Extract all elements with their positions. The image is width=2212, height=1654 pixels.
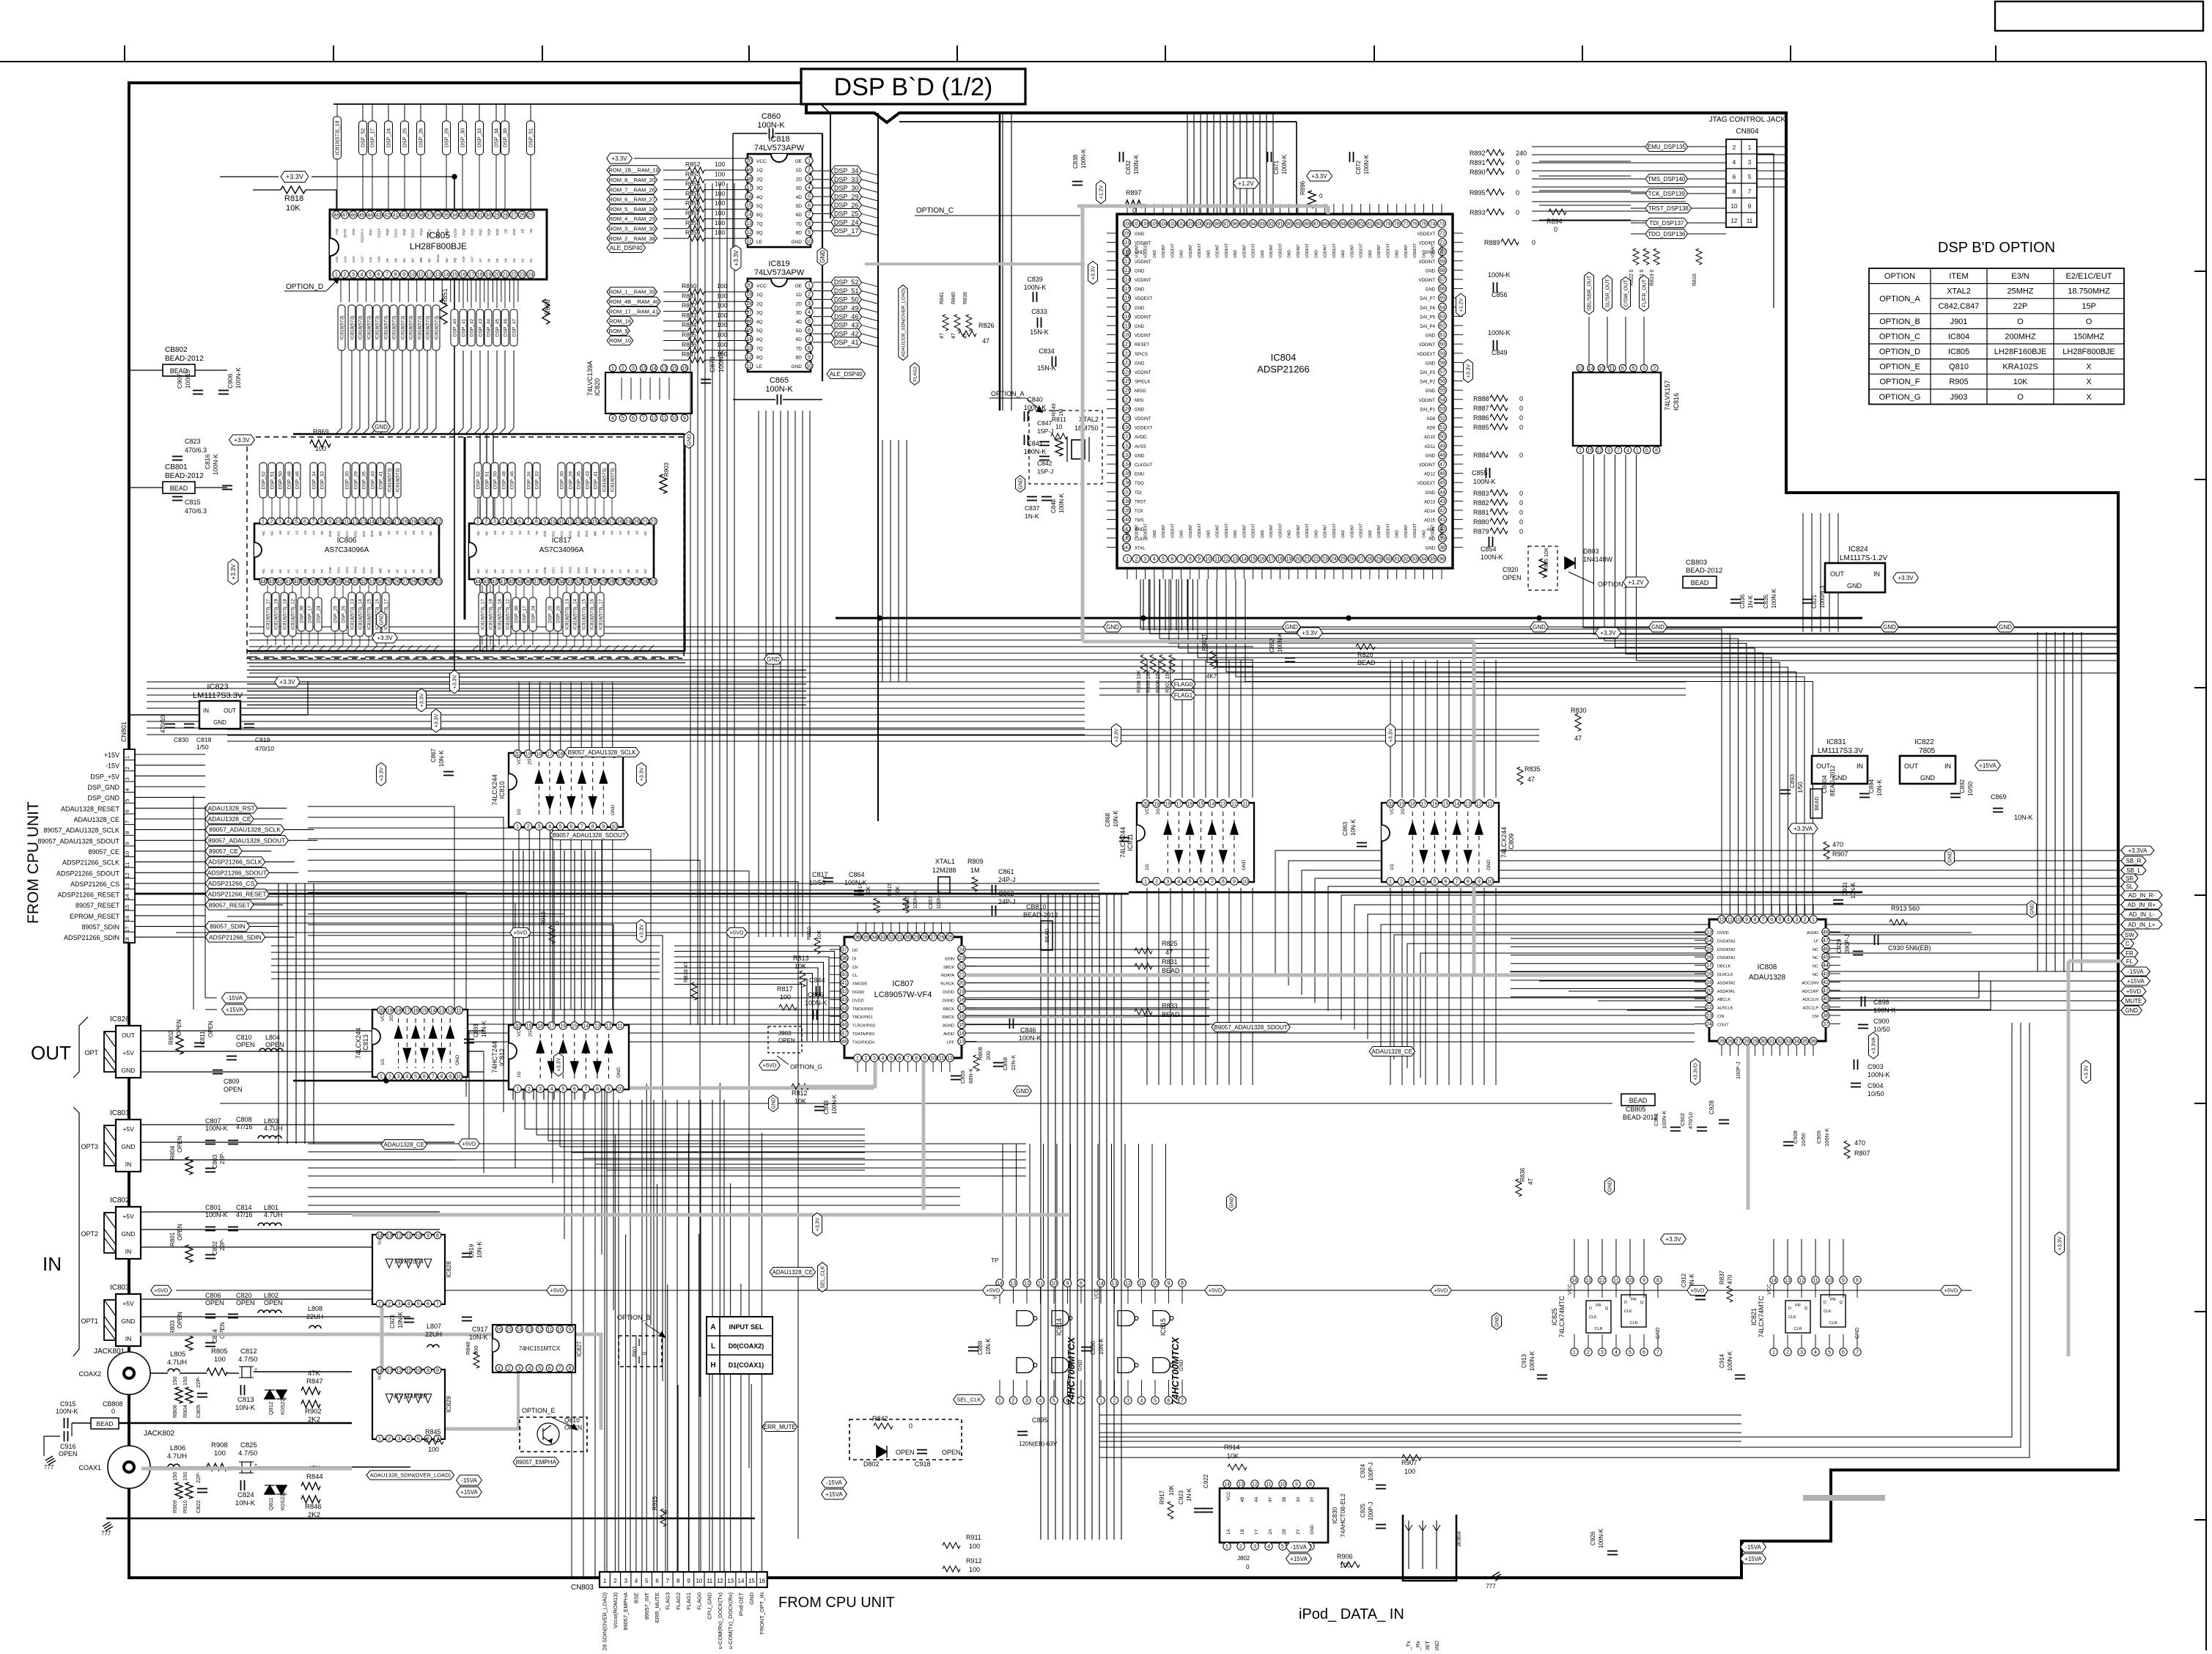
svg-text:3: 3 xyxy=(1025,1399,1028,1404)
svg-text:1: 1 xyxy=(498,1367,501,1372)
svg-text:OPEN: OPEN xyxy=(177,1136,183,1153)
svg-text:GND: GND xyxy=(1126,250,1130,259)
R902T 4K7 xyxy=(1210,651,1216,669)
svg-text:GND: GND xyxy=(1230,1197,1235,1208)
svg-text:37: 37 xyxy=(841,948,847,953)
svg-text:100N-K: 100N-K xyxy=(844,879,867,886)
svg-text:3B: 3B xyxy=(1283,1497,1287,1502)
svg-text:100N-K: 100N-K xyxy=(1481,554,1503,561)
svg-text:DSP_41: DSP_41 xyxy=(834,339,859,346)
svg-text:14: 14 xyxy=(443,273,449,278)
svg-text:36: 36 xyxy=(542,580,548,585)
svg-text:O: O xyxy=(2017,317,2024,326)
svg-text:20: 20 xyxy=(494,273,500,278)
svg-text:GND: GND xyxy=(1135,288,1145,293)
svg-text:29: 29 xyxy=(1376,557,1382,562)
svg-text:74LCX244: 74LCX244 xyxy=(491,774,498,806)
svg-text:DSP_24: DSP_24 xyxy=(316,606,321,623)
svg-text:R901 10K: R901 10K xyxy=(1165,670,1170,693)
svg-text:10N-K: 10N-K xyxy=(1876,779,1883,796)
svg-text:R868: R868 xyxy=(544,299,551,315)
svg-text:100N-K: 100N-K xyxy=(1873,1007,1896,1014)
svg-text:44: 44 xyxy=(475,580,481,585)
Q812 diodes xyxy=(265,1390,275,1399)
svg-text:135: 135 xyxy=(1122,471,1131,477)
svg-text:VDDEXT: VDDEXT xyxy=(1225,243,1229,258)
svg-text:A1: A1 xyxy=(287,569,290,573)
svg-text:IC818(573): IC818(573) xyxy=(602,468,607,493)
svg-text:100: 100 xyxy=(715,190,725,197)
svg-text:5: 5 xyxy=(414,1075,417,1080)
svg-text:19: 19 xyxy=(486,273,492,278)
svg-text:L805: L805 xyxy=(170,1350,185,1359)
svg-text:2: 2 xyxy=(528,1087,531,1092)
hex ALE_DSP40 lower xyxy=(827,370,866,379)
svg-text:5Q: 5Q xyxy=(756,328,763,334)
svg-text:86: 86 xyxy=(1322,222,1328,227)
hex label columns below IC806/IC817 xyxy=(264,592,271,636)
svg-text:47: 47 xyxy=(1527,776,1535,783)
svg-text:A8: A8 xyxy=(394,258,398,262)
svg-text:C845: C845 xyxy=(904,896,910,909)
svg-text:6: 6 xyxy=(1645,449,1648,454)
svg-text:+3.3V: +3.3V xyxy=(1302,630,1318,636)
svg-text:C917: C917 xyxy=(472,1326,488,1333)
svg-text:CLR: CLR xyxy=(1829,1321,1837,1326)
svg-text:16: 16 xyxy=(413,1009,419,1014)
svg-text:A6: A6 xyxy=(395,531,399,535)
svg-text:XMODE: XMODE xyxy=(852,982,868,987)
svg-text:0: 0 xyxy=(1516,169,1519,176)
svg-text:H: H xyxy=(710,1361,715,1370)
svg-text:PR: PR xyxy=(1795,1304,1801,1308)
svg-text:FR: FR xyxy=(2126,950,2134,957)
svg-text:13: 13 xyxy=(1220,802,1226,807)
svg-text:24: 24 xyxy=(959,948,965,953)
svg-text:1G: 1G xyxy=(1145,864,1150,870)
svg-text:DSP_42: DSP_42 xyxy=(469,319,474,337)
svg-text:3: 3 xyxy=(397,1437,400,1442)
svg-text:SEL_CLK: SEL_CLK xyxy=(957,1397,981,1403)
svg-text:BEAD: BEAD xyxy=(1815,796,1820,810)
svg-text:9: 9 xyxy=(1295,1482,1298,1488)
svg-text:ROM_9: ROM_9 xyxy=(609,328,628,334)
svg-text:1: 1 xyxy=(516,1087,519,1092)
svg-text:MISI: MISI xyxy=(1135,399,1144,403)
svg-text:R888: R888 xyxy=(1473,395,1489,403)
svg-text:24: 24 xyxy=(427,580,433,585)
svg-text:1: 1 xyxy=(1126,557,1129,562)
svg-text:FLAG2: FLAG2 xyxy=(913,366,918,381)
svg-text:5D: 5D xyxy=(796,204,803,209)
IC813 74LCX244 buffer xyxy=(372,1010,468,1077)
svg-text:R890: R890 xyxy=(1470,169,1486,176)
svg-text:12: 12 xyxy=(447,1009,453,1014)
svg-text:7: 7 xyxy=(1656,1350,1659,1356)
svg-text:8: 8 xyxy=(915,1056,918,1062)
svg-text:GND: GND xyxy=(1180,250,1184,259)
ground jack802 xyxy=(103,1522,110,1526)
svg-text:12: 12 xyxy=(124,872,130,878)
svg-text:A0: A0 xyxy=(493,569,497,573)
svg-text:DSP_47: DSP_47 xyxy=(512,319,517,337)
svg-text:IC819(573)_18: IC819(573)_18 xyxy=(336,121,341,155)
svg-text:38: 38 xyxy=(526,580,531,585)
svg-text:11: 11 xyxy=(124,862,130,868)
svg-text:6D: 6D xyxy=(796,213,803,218)
svg-text:10: 10 xyxy=(1731,203,1738,210)
svg-text:IC812: IC812 xyxy=(498,1048,506,1066)
svg-text:C901: C901 xyxy=(1653,1113,1659,1126)
svg-text:GND: GND xyxy=(1495,1315,1500,1327)
svg-text:C839: C839 xyxy=(1027,276,1043,283)
-15VA +15VA right mid xyxy=(1741,1542,1766,1552)
R826 47 xyxy=(959,331,976,337)
svg-text:VDDINT: VDDINT xyxy=(1135,334,1151,339)
svg-text:81: 81 xyxy=(1367,222,1373,227)
svg-text:A7: A7 xyxy=(404,569,408,573)
svg-text:4: 4 xyxy=(1814,1350,1817,1356)
R837 470 xyxy=(1727,1286,1733,1302)
svg-text:DSP_24: DSP_24 xyxy=(387,128,392,147)
svg-text:12: 12 xyxy=(1596,449,1602,454)
svg-text:43: 43 xyxy=(1439,499,1445,504)
svg-text:470/6.3: 470/6.3 xyxy=(185,507,207,515)
svg-text:11: 11 xyxy=(1242,802,1247,807)
svg-text:VSS: VSS xyxy=(352,229,355,235)
svg-text:XTAL: XTAL xyxy=(1135,546,1146,551)
svg-text:65: 65 xyxy=(1439,296,1445,301)
center mesh horizontals xyxy=(227,883,1099,884)
svg-text:5: 5 xyxy=(417,1302,420,1307)
svg-text:10K: 10K xyxy=(865,886,871,896)
svg-text:SW: SW xyxy=(2125,932,2134,938)
svg-text:10K: 10K xyxy=(1168,1485,1175,1496)
svg-text:R849: R849 xyxy=(1050,403,1057,416)
wire trunk y1474 xyxy=(293,1080,602,1082)
svg-text:EMU: EMU xyxy=(1135,473,1144,477)
+15VA hex xyxy=(1975,760,2001,771)
svg-text:4B: 4B xyxy=(1241,1497,1245,1502)
svg-text:R815: R815 xyxy=(886,883,893,896)
svg-text:18M750: 18M750 xyxy=(1074,424,1099,432)
svg-text:Vccw(ROM13): Vccw(ROM13) xyxy=(612,1592,619,1628)
svg-text:11: 11 xyxy=(1487,802,1492,807)
svg-text:3Q: 3Q xyxy=(756,311,763,316)
svg-text:40: 40 xyxy=(1823,997,1829,1002)
svg-text:40: 40 xyxy=(294,580,300,585)
svg-text:ADAU1328_SDIN(OVER_LOAD): ADAU1328_SDIN(OVER_LOAD) xyxy=(370,1472,451,1479)
svg-text:9: 9 xyxy=(1168,1282,1170,1287)
svg-text:DSP_52: DSP_52 xyxy=(834,279,859,286)
svg-text:C912: C912 xyxy=(1681,1273,1687,1287)
svg-text:DQ14: DQ14 xyxy=(377,229,381,238)
svg-text:IC813: IC813 xyxy=(362,1034,369,1052)
svg-text:13: 13 xyxy=(527,1328,533,1333)
svg-text:R833: R833 xyxy=(1162,1002,1178,1010)
svg-text:22: 22 xyxy=(511,273,517,278)
svg-text:3: 3 xyxy=(124,777,130,780)
svg-text:100: 100 xyxy=(717,302,727,309)
svg-text:A7: A7 xyxy=(619,569,622,573)
svg-text:8: 8 xyxy=(1080,1282,1083,1287)
svg-text:ROM_4B__RAM_40: ROM_4B__RAM_40 xyxy=(608,298,658,305)
svg-text:OUT: OUT xyxy=(31,1042,71,1064)
svg-text:CLKOUT: CLKOUT xyxy=(1135,463,1153,468)
svg-text:19: 19 xyxy=(1154,802,1160,807)
svg-text:L802: L802 xyxy=(264,1292,279,1299)
svg-text:25: 25 xyxy=(419,580,425,585)
svg-text:24P-J: 24P-J xyxy=(998,898,1016,905)
svg-text:D0: D0 xyxy=(852,949,858,953)
svg-text:C861: C861 xyxy=(998,868,1014,875)
svg-text:8: 8 xyxy=(1856,1279,1859,1284)
svg-text:74LV573APW: 74LV573APW xyxy=(754,268,805,277)
svg-text:11: 11 xyxy=(558,520,564,525)
svg-text:9: 9 xyxy=(808,230,811,235)
svg-text:6: 6 xyxy=(518,520,521,525)
svg-text:RDATA: RDATA xyxy=(941,974,954,978)
svg-text:1M: 1M xyxy=(970,867,980,874)
svg-text:R854: R854 xyxy=(685,180,701,188)
svg-text:R812: R812 xyxy=(792,1089,808,1097)
ground xyxy=(1492,1572,1500,1576)
svg-text:NC: NC xyxy=(437,530,440,535)
long horizontals 15VA xyxy=(246,971,2121,998)
svg-text:C823: C823 xyxy=(185,438,201,445)
svg-text:13: 13 xyxy=(1112,1282,1118,1287)
svg-text:OPTION_E: OPTION_E xyxy=(522,1407,556,1414)
wire gnd rail jack801 xyxy=(72,1422,91,1424)
svg-text:11: 11 xyxy=(406,1234,411,1239)
svg-text:5: 5 xyxy=(808,319,811,324)
svg-text:7: 7 xyxy=(1181,1399,1184,1404)
svg-text:14: 14 xyxy=(583,520,589,525)
svg-text:LM1117S3.3V: LM1117S3.3V xyxy=(193,691,243,700)
svg-text:15: 15 xyxy=(377,520,383,525)
svg-text:+3.3V: +3.3V xyxy=(611,155,627,162)
svg-text:74HCT00MTCX: 74HCT00MTCX xyxy=(1170,1336,1181,1405)
svg-text:VDDEXT: VDDEXT xyxy=(1278,523,1283,538)
svg-text:DSP_41: DSP_41 xyxy=(593,471,598,490)
svg-text:+3.3V: +3.3V xyxy=(420,693,425,707)
svg-text:39: 39 xyxy=(1823,1005,1829,1010)
svg-text:18: 18 xyxy=(402,520,408,525)
vertical trunk x1198 xyxy=(877,113,879,821)
svg-text:34: 34 xyxy=(558,580,564,585)
svg-text:2: 2 xyxy=(527,825,530,830)
svg-text:12: 12 xyxy=(1476,802,1482,807)
svg-text:61: 61 xyxy=(1439,333,1445,338)
svg-text:16: 16 xyxy=(460,273,466,278)
svg-text:1: 1 xyxy=(1573,1350,1576,1356)
svg-text:Vcc: Vcc xyxy=(378,1372,383,1380)
svg-text:R853: R853 xyxy=(685,170,701,177)
wires below IC805 to RAM hexes xyxy=(340,279,342,302)
svg-text:GND: GND xyxy=(1608,1180,1613,1192)
svg-text:VDDEXT: VDDEXT xyxy=(1198,243,1202,258)
svg-text:L801: L801 xyxy=(264,1204,279,1211)
svg-text:37: 37 xyxy=(534,580,539,585)
svg-text:GND: GND xyxy=(1206,530,1211,539)
svg-text:R891: R891 xyxy=(1470,159,1486,166)
svg-text:VDDINT: VDDINT xyxy=(1297,524,1301,538)
svg-text:2: 2 xyxy=(388,1075,391,1080)
svg-text:C821: C821 xyxy=(1811,594,1818,609)
svg-text:DQ8: DQ8 xyxy=(487,229,490,236)
svg-text:6: 6 xyxy=(1770,918,1773,923)
svg-text:+3.3V: +3.3V xyxy=(380,767,385,781)
svg-text:GND: GND xyxy=(1426,334,1436,339)
svg-text:22P-: 22P- xyxy=(219,1152,226,1164)
svg-text:DAI_P2: DAI_P2 xyxy=(1420,381,1435,385)
svg-text:Q: Q xyxy=(1640,1301,1644,1305)
svg-text:6: 6 xyxy=(303,520,306,525)
svg-text:LPF: LPF xyxy=(947,1040,955,1045)
svg-text:IC829: IC829 xyxy=(445,1396,452,1413)
svg-text:74LCX244: 74LCX244 xyxy=(1500,827,1508,859)
svg-text:GND: GND xyxy=(1106,624,1119,631)
svg-text:150: 150 xyxy=(172,1376,178,1386)
svg-text:ADSP21266_SCLK: ADSP21266_SCLK xyxy=(208,859,262,866)
svg-text:GND: GND xyxy=(1341,530,1346,539)
svg-text:GND: GND xyxy=(616,1067,622,1078)
svg-text:Vccw: Vccw xyxy=(436,254,440,262)
wires IC816 bottom to right border xyxy=(1583,455,2118,628)
wires from IC810 top xyxy=(518,682,520,753)
svg-text:D: D xyxy=(1589,1306,1592,1311)
svg-text:+3.3V: +3.3V xyxy=(286,173,303,180)
svg-text:FROM CPU UNIT: FROM CPU UNIT xyxy=(778,1595,895,1611)
svg-text:100P-J: 100P-J xyxy=(1368,1463,1374,1481)
svg-text:8: 8 xyxy=(436,1234,439,1239)
buf chips to mesh xyxy=(518,827,520,1010)
svg-text:1: 1 xyxy=(1812,918,1815,923)
svg-text:75: 75 xyxy=(1421,222,1427,227)
svg-text:A8: A8 xyxy=(627,569,630,573)
svg-text:MISO: MISO xyxy=(1135,389,1146,394)
svg-text:IC802: IC802 xyxy=(110,1197,130,1205)
svg-text:WE: WE xyxy=(594,568,597,573)
svg-text:13: 13 xyxy=(386,1369,392,1374)
svg-text:44: 44 xyxy=(1439,490,1445,495)
svg-text:10N-K: 10N-K xyxy=(469,1334,488,1341)
svg-text:IC804: IC804 xyxy=(1948,332,1969,341)
svg-text:SPICLK: SPICLK xyxy=(1135,381,1150,385)
R889 0 xyxy=(1501,239,1519,245)
svg-text:100N-K: 100N-K xyxy=(1598,1528,1604,1548)
svg-text:5: 5 xyxy=(1632,367,1635,372)
svg-text:42: 42 xyxy=(841,990,847,995)
svg-text:A5: A5 xyxy=(602,531,605,535)
svg-text:VDDEXT: VDDEXT xyxy=(1417,482,1436,486)
svg-text:C807: C807 xyxy=(205,1117,221,1125)
svg-text:ADSP21266_CS: ADSP21266_CS xyxy=(208,880,255,887)
svg-text:8: 8 xyxy=(1189,557,1192,562)
svg-text:10: 10 xyxy=(1627,1279,1633,1284)
svg-text:IC815: IC815 xyxy=(1160,1318,1167,1336)
svg-text:DSP_50: DSP_50 xyxy=(493,471,498,490)
svg-text:5: 5 xyxy=(1154,1399,1157,1404)
svg-text:NC: NC xyxy=(1813,965,1818,969)
svg-text:5: 5 xyxy=(538,1367,541,1372)
svg-text:ADSP21266_SDOUT: ADSP21266_SDOUT xyxy=(207,869,267,876)
svg-text:L807: L807 xyxy=(427,1323,441,1330)
svg-text:8: 8 xyxy=(676,1578,680,1584)
svg-text:100N-K: 100N-K xyxy=(805,999,827,1007)
svg-text:-15VA: -15VA xyxy=(1291,1544,1307,1551)
C849 cap xyxy=(1493,340,1494,350)
svg-text:A17: A17 xyxy=(470,256,473,262)
svg-text:42: 42 xyxy=(1439,509,1445,514)
vertical hexes SBL/SBR_OUT etc xyxy=(1585,272,1594,315)
svg-text:IC818(573)_17: IC818(573)_17 xyxy=(598,599,603,631)
svg-text:R839: R839 xyxy=(963,292,968,304)
svg-text:VDDINT: VDDINT xyxy=(1431,244,1436,258)
svg-text:28: 28 xyxy=(394,580,400,585)
svg-text:RP: RP xyxy=(428,258,432,262)
svg-text:3: 3 xyxy=(632,367,635,372)
wire jtag to border xyxy=(1757,154,1774,308)
svg-text:AGND: AGND xyxy=(943,1024,954,1029)
GND hexes scattered xyxy=(377,611,386,628)
svg-text:A5: A5 xyxy=(387,569,391,573)
svg-text:LH28F800BJE: LH28F800BJE xyxy=(410,241,467,251)
svg-text:VSS: VSS xyxy=(568,531,572,537)
svg-text:DVDD: DVDD xyxy=(852,999,864,1003)
svg-text:100: 100 xyxy=(969,1566,980,1573)
svg-text:RBCK: RBCK xyxy=(943,1007,955,1012)
svg-text:3: 3 xyxy=(1601,1350,1604,1356)
svg-text:IC823: IC823 xyxy=(207,683,228,691)
svg-text:O: O xyxy=(2017,393,2024,402)
svg-text:3Y: 3Y xyxy=(1310,1497,1315,1502)
svg-text:10N-K: 10N-K xyxy=(1113,810,1119,827)
svg-text:19: 19 xyxy=(526,752,531,757)
R888-R885 stack xyxy=(1490,395,1508,401)
svg-text:D1(COAX1): D1(COAX1) xyxy=(729,1361,764,1369)
svg-text:100N-K: 100N-K xyxy=(765,385,793,394)
svg-text:IC818(573): IC818(573) xyxy=(387,468,392,493)
svg-text:16: 16 xyxy=(1432,802,1438,807)
R845 100 xyxy=(424,1438,443,1444)
svg-text:100: 100 xyxy=(214,1449,226,1458)
R897 0 xyxy=(1126,200,1143,207)
svg-text:24: 24 xyxy=(1331,557,1337,562)
svg-text:+3.3V: +3.3V xyxy=(1389,728,1394,742)
BEAD CB805 xyxy=(1621,1094,1655,1106)
title box DSP B'D (1/2) xyxy=(801,69,1025,104)
svg-text:10: 10 xyxy=(696,1578,702,1584)
svg-text:A6: A6 xyxy=(395,569,399,573)
svg-text:GND: GND xyxy=(1078,1359,1083,1371)
svg-text:3: 3 xyxy=(808,301,811,306)
C856 cap xyxy=(1493,282,1494,293)
svg-text:0: 0 xyxy=(1516,189,1519,196)
svg-text:AVDD: AVDD xyxy=(1135,435,1147,440)
svg-text:B9057_ADAU1328_SDOUT: B9057_ADAU1328_SDOUT xyxy=(553,832,626,839)
svg-text:28: 28 xyxy=(609,580,615,585)
svg-text:8: 8 xyxy=(1656,1279,1659,1284)
svg-text:VDDEXT: VDDEXT xyxy=(1225,523,1229,538)
svg-text:8: 8 xyxy=(1655,449,1658,454)
svg-text:100: 100 xyxy=(717,321,727,328)
svg-text:C859: C859 xyxy=(959,1070,966,1084)
svg-text:C929: C929 xyxy=(1836,938,1843,953)
svg-text:RB: RB xyxy=(453,258,457,262)
R838 47 xyxy=(691,982,697,1000)
svg-text:13: 13 xyxy=(1585,1279,1591,1284)
